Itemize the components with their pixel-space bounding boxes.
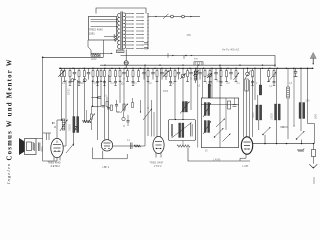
tube V4 electrodes	[244, 141, 251, 143]
mixer coil L6a	[204, 121, 206, 133]
coil L4 zigzag below	[177, 145, 190, 148]
resistor R22	[209, 68, 211, 70]
svg-text:3000: 3000	[252, 112, 255, 118]
coil L2b	[77, 117, 79, 133]
coil L2a	[73, 117, 75, 133]
svg-text:LBF 2: LBF 2	[103, 166, 110, 169]
tube V4 envelope	[241, 137, 252, 154]
wire secondary tap 10	[126, 44, 134, 46]
wire tap collector rail	[147, 14, 149, 50]
svg-text:2000: 2000	[80, 83, 86, 85]
capacitor C8	[161, 68, 163, 72]
tube V1 pins	[53, 157, 55, 161]
trimmer CT1	[182, 68, 184, 74]
transformer T1 core	[120, 12, 122, 50]
wire drop x190	[190, 78, 192, 111]
wire mains-box drop	[102, 40, 104, 57]
resistor R28	[273, 68, 275, 70]
wire voltage selector	[148, 16, 170, 18]
svg-text:TRES 4040: TRES 4040	[89, 28, 103, 32]
resistor R2	[69, 68, 71, 70]
svg-text:Ingelen: Ingelen	[6, 163, 11, 185]
wire V1 anode link	[63, 145, 66, 147]
wire drops to V4 top	[243, 68, 245, 137]
mains unit box	[89, 16, 117, 40]
resistor R20 (wirewound)	[195, 68, 197, 71]
IF coil Lb	[182, 123, 184, 138]
tube V1 electrodes	[53, 144, 61, 146]
output transformer winding	[33, 143, 36, 151]
transformer T1 primary winding	[117, 13, 119, 48]
wire x86 drop	[86, 110, 88, 122]
wire secondary tap 4	[126, 23, 134, 25]
mixer inner divider	[201, 103, 238, 105]
svg-text:20X: 20X	[306, 100, 311, 103]
wire drop to mixer box	[211, 68, 213, 98]
capacitor C37	[115, 104, 118, 106]
wire secondary tap 2	[126, 16, 134, 18]
resistor R9	[109, 68, 111, 70]
trimmer CT7	[83, 79, 86, 82]
wire secondary tap 7	[126, 34, 134, 36]
potentiometer arrow	[165, 68, 167, 70]
resistor R13	[132, 68, 134, 70]
trimmer CT2	[195, 68, 197, 71]
bus lower	[59, 67, 314, 69]
potentiometer P3	[121, 104, 129, 114]
wire drop x145	[144, 65, 146, 146]
trimmer CT6	[71, 79, 74, 82]
tube V3 envelope	[153, 136, 164, 153]
mixer coil L5b	[208, 103, 210, 116]
capacitor C38	[127, 120, 130, 122]
resistor R25	[235, 68, 237, 70]
wire drop V2 anode	[108, 75, 110, 140]
switch S4 arrow	[263, 127, 271, 135]
wire right jog	[308, 68, 315, 143]
svg-text:30000: 30000	[313, 177, 316, 184]
mixer coil arrow 2	[203, 121, 211, 134]
capacitor C11	[199, 68, 201, 72]
svg-text:L MP: L MP	[243, 165, 249, 168]
selector contact S1b	[182, 15, 185, 18]
fuse F1	[117, 50, 125, 53]
potentiometer P5	[268, 72, 276, 82]
tube V3 pins	[155, 153, 157, 158]
wire drop to IF box left	[174, 77, 176, 120]
potentiometer P4	[143, 109, 152, 121]
potentiometer arrow	[61, 68, 63, 70]
bus bottom right	[253, 143, 314, 145]
switch arrow S6	[234, 73, 240, 81]
svg-text:3000: 3000	[41, 146, 44, 152]
svg-text:465: 465	[187, 33, 192, 37]
wire HT line	[121, 56, 276, 68]
resistor R35	[90, 106, 92, 114]
capacitor C30 speaker	[37, 143, 39, 152]
resistor R27	[268, 68, 270, 70]
selector contact S1a	[171, 15, 174, 18]
wire V3 left	[147, 108, 149, 136]
capacitor C31	[91, 97, 97, 99]
resistor R3	[78, 68, 80, 70]
pilot lamp LA1	[125, 50, 127, 61]
svg-text:10000: 10000	[271, 113, 274, 120]
wire drop x101	[100, 80, 102, 106]
coil L3 small	[134, 145, 141, 147]
capacitor C20	[295, 68, 297, 71]
wire V3 grid pair	[151, 100, 153, 137]
wire drop to V1 grid	[61, 80, 63, 120]
IF box top dots	[175, 119, 176, 120]
mixer aux wire	[225, 98, 227, 130]
mixer coil L5a	[204, 103, 206, 116]
capacitor C13	[230, 68, 232, 72]
resistor R1	[64, 68, 66, 70]
mains cord resistor 4032	[91, 53, 99, 56]
IF capacitor left	[170, 124, 172, 137]
mixer capacitor C35	[233, 104, 237, 106]
wire speaker return	[43, 139, 57, 162]
tube V2 electrodes	[104, 142, 111, 144]
wire primary tap 2	[91, 21, 117, 23]
wire x140 stub	[140, 100, 142, 112]
svg-text:4032: 4032	[91, 58, 97, 61]
capacitor C5	[123, 68, 125, 72]
resistor R19	[187, 68, 189, 70]
mixer switch arrow 3	[223, 134, 231, 142]
coil L1 (RF choke)	[260, 68, 262, 85]
tube V2 envelope	[101, 140, 112, 151]
coil L10 above IF box	[182, 102, 184, 113]
potentiometer P1	[60, 120, 68, 132]
capacitor C34 cluster	[107, 107, 110, 109]
capacitor C3	[74, 68, 76, 72]
wire AF return	[188, 148, 250, 162]
mains plug wire	[88, 40, 91, 53]
wire drop to osc coil right	[77, 80, 79, 117]
trimmer CT5	[208, 74, 211, 77]
resistor R8	[104, 68, 106, 70]
wire V1 top cap	[56, 120, 58, 138]
IF coil La	[179, 123, 181, 138]
wire drop x97	[97, 77, 99, 140]
wire V2 cathode loop	[93, 148, 128, 159]
wire speaker feed	[42, 57, 44, 138]
switch S5 arrow	[297, 131, 305, 139]
wire secondary tap 9	[126, 41, 134, 43]
svg-text:tew: tew	[194, 58, 198, 61]
wire drop x255	[254, 68, 256, 100]
wire chassis feeder	[43, 56, 104, 58]
wire selector end	[185, 16, 200, 18]
resistor R36	[132, 103, 134, 108]
wire x288 drop	[287, 100, 289, 139]
IF box tuning arrow	[172, 123, 192, 139]
trimmer CT4	[122, 117, 125, 120]
tube V1 grid resistor (hatched)	[62, 119, 65, 130]
capacitor C1 (tap filter)	[144, 42, 148, 44]
wire V4 cathode	[240, 154, 246, 161]
resistor R32	[123, 104, 125, 110]
speaker cone	[19, 138, 25, 155]
wire drop x121	[119, 80, 121, 103]
tuning coil L8	[276, 68, 278, 104]
relay box right	[245, 79, 248, 91]
bus upper dots	[104, 65, 275, 66]
wire secondary tap 11	[126, 47, 134, 49]
resistor R21	[204, 68, 206, 70]
capacitor C2 (tap filter)	[144, 46, 148, 48]
grid cap marks V1	[52, 122, 53, 123]
capacitor C12	[215, 68, 217, 72]
wire drop to IF box center	[182, 88, 184, 120]
wire mixer left leg	[202, 68, 204, 98]
wire drop V1 anode	[65, 80, 67, 135]
potentiometer P2	[66, 144, 74, 154]
tube V3 electrodes	[155, 141, 162, 143]
gramophone chain wire	[313, 157, 315, 164]
wire secondary tap 6	[126, 30, 134, 32]
wire primary tap 3	[91, 26, 117, 28]
tube V1 envelope	[51, 138, 63, 157]
wire switch stub	[183, 56, 185, 59]
resistor R23	[220, 68, 222, 70]
antenna arrow	[310, 52, 316, 58]
wire secondary tap 8	[126, 37, 134, 39]
output transformer inner	[27, 142, 32, 151]
wire x294 drop	[293, 68, 295, 126]
svg-text:5000: 5000	[163, 91, 169, 93]
wire rectifier output arrow	[100, 53, 113, 57]
capacitor C9	[178, 68, 180, 72]
capacitor C4	[88, 68, 90, 72]
svg-text:A ETR 2: A ETR 2	[51, 165, 61, 168]
band switch S2	[167, 53, 169, 57]
svg-text:208: 208	[314, 114, 318, 119]
resistor R26	[252, 68, 254, 70]
resistor R18	[174, 68, 176, 70]
capacitor C6	[143, 68, 145, 72]
resistor R17	[170, 68, 172, 70]
resistor R12	[127, 68, 129, 70]
wire drop x85	[83, 80, 85, 122]
capacitor C33	[130, 143, 132, 150]
mixer box	[201, 98, 238, 148]
mixer center wire	[219, 98, 221, 148]
resistor R37	[106, 102, 108, 107]
wire primary tap 4	[104, 36, 117, 38]
wire drop to V2 top	[104, 80, 106, 140]
wire selector middle	[174, 16, 182, 18]
wire secondary tap 3	[126, 20, 134, 22]
potentiometer P7	[88, 114, 95, 123]
trimmer CT3	[74, 126, 77, 129]
resistor R24	[226, 68, 228, 70]
bus junction dots	[60, 68, 313, 69]
svg-text:2 TR 2: 2 TR 2	[154, 165, 162, 168]
gramophone chain capacitor C36	[313, 144, 315, 150]
zigzag dropper in box	[114, 35, 116, 42]
resistor R10	[115, 68, 117, 70]
resistor R6	[97, 68, 99, 70]
resistor R4	[83, 68, 85, 70]
wire drop V3 anode	[160, 68, 162, 136]
wire below IF box	[182, 141, 184, 147]
wire drop x92	[92, 80, 94, 106]
resistor R7	[100, 68, 102, 70]
wire primary tap 1	[91, 19, 117, 21]
pickup squiggle	[298, 149, 304, 151]
selector lever	[163, 14, 169, 19]
output transformer box	[25, 139, 37, 155]
resistor R31 zigzag	[83, 120, 92, 123]
wire drop x148	[147, 77, 149, 108]
wire drop to osc coil left	[73, 80, 75, 117]
svg-text:70000: 70000	[69, 124, 72, 131]
junction dots mid	[117, 111, 118, 112]
capacitor C32	[93, 105, 102, 107]
svg-text:He-Po 465+AZ: He-Po 465+AZ	[222, 48, 240, 52]
resistor R34 (wirewound right)	[287, 68, 289, 87]
wire secondary tap 5	[126, 27, 134, 29]
mixer switch arrow 1	[215, 128, 224, 137]
potentiometer P6 on L10	[180, 102, 190, 114]
mixer resistor R33	[228, 101, 231, 109]
tuning coil L7	[257, 95, 259, 105]
mixer coil arrow 1	[203, 103, 211, 117]
resistor R14	[138, 68, 140, 70]
svg-text:L 4040: L 4040	[213, 158, 221, 161]
wire tone branch	[43, 132, 51, 134]
wire drop to V3 top	[156, 77, 158, 137]
capacitor C10	[190, 68, 192, 72]
wire secondary tap 1	[126, 13, 134, 15]
svg-text:20000: 20000	[68, 88, 70, 95]
IF transformer box	[169, 120, 196, 141]
wire link x116-x120	[117, 111, 121, 113]
transformer T1 secondary winding	[123, 13, 125, 49]
mixer switch arrow 2	[216, 119, 225, 128]
resistor R5	[92, 68, 94, 70]
tuning coil L9	[300, 68, 302, 102]
resistor R15	[147, 68, 149, 70]
wire osc coil to V1	[73, 133, 75, 147]
wire drop x197.5 long	[197, 65, 199, 147]
coil L11 into mixer	[209, 77, 211, 84]
resistor R30 on upper bus	[194, 62, 203, 65]
resistor R16	[156, 68, 158, 70]
wire anode top link	[96, 8, 146, 14]
wire drop mixer center	[219, 65, 221, 98]
bus upper	[100, 64, 275, 66]
capacitor C7	[152, 68, 154, 72]
svg-text:1081: 1081	[89, 32, 95, 36]
headphone chevron	[309, 164, 317, 168]
wire V2 anode line	[113, 145, 145, 147]
IF capacitor right	[190, 124, 192, 137]
mixer coil L6b	[208, 121, 210, 133]
resistor R11	[119, 68, 121, 70]
wire drop x124	[123, 78, 125, 113]
switch S3 contact	[247, 68, 249, 72]
